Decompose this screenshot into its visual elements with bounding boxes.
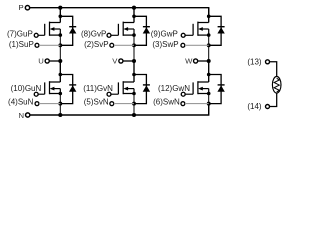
diode D6 [217,85,224,92]
mosfet Q6 gate bar [192,82,194,94]
terminal SvN pin 5 [110,102,114,106]
terminal W [194,59,198,63]
wire gate lead Q3 [185,34,193,36]
diode D3 [217,27,224,34]
mosfet Q5 body arrow [123,87,134,91]
node source junction Q6 [207,92,211,96]
node output U junction [58,59,62,63]
svg-text:(14): (14) [247,102,262,111]
wire thermistor top [270,62,277,77]
node P-U junction [58,6,62,10]
terminal SuP pin 1 [35,43,39,47]
wire gate lead Q5 [111,93,118,95]
node output V junction [132,59,136,63]
wire drain leg Q4 [59,61,61,82]
wire source lead Q6 [198,93,209,95]
wire gate lead Q1 [38,34,44,36]
svg-text:(10)GuN: (10)GuN [11,84,42,93]
mosfet Q4 gate bar [44,82,46,94]
node sense junction Q1 [58,43,62,47]
node drain junction Q3 [207,14,211,18]
svg-text:(1)SuP: (1)SuP [9,40,34,49]
wire diode branch D1 [60,16,72,45]
terminal GuN pin 10 [34,92,38,96]
wire drain leg Q1 [59,8,61,23]
wire diode branch D5 [134,75,146,104]
wire source lead Q1 [50,34,61,36]
node drain junction Q4 [59,73,63,77]
wire drain leg Q3 [208,8,210,23]
mosfet Q5 gate bar [117,82,119,94]
wire drain leg Q2 [133,8,135,23]
wire source sense SvN [114,103,134,105]
wire diode branch D6 [209,75,221,104]
node sense junction Q2 [132,43,136,47]
node N-U junction [58,113,62,117]
node drain junction Q5 [132,73,136,77]
mosfet Q2 channel [122,22,124,36]
diode D4 [69,85,76,92]
svg-text:(12)GwN: (12)GwN [158,84,190,93]
mosfet Q6 body arrow [198,87,209,91]
wire N rail [30,104,209,115]
mosfet Q1 body arrow [50,27,61,31]
wire source lead Q5 [123,93,134,95]
wire drain lead Q5 [123,81,134,83]
node source junction Q5 [132,92,136,96]
svg-text:(6)SwN: (6)SwN [153,97,180,106]
wire source sense SuP [39,44,60,46]
mosfet Q5 channel [122,81,124,94]
wire diode branch D4 [60,75,72,104]
terminal pin 13 [266,60,270,64]
wire gate lead Q6 [185,93,193,95]
terminal U [45,59,49,63]
svg-text:(9)GwP: (9)GwP [151,30,178,39]
svg-text:U: U [38,56,44,65]
mosfet Q1 channel [49,22,51,36]
wire source sense SwN [185,103,209,105]
node source junction Q3 [207,33,211,37]
svg-text:(13): (13) [247,57,262,66]
node drain junction Q1 [59,14,63,18]
wire source lead Q4 [50,93,61,95]
mosfet Q2 body arrow [123,27,134,31]
wire diode branch D2 [134,16,146,45]
thermistor TH1 [272,77,281,94]
wire drain leg Q6 [208,61,210,82]
terminal GuP pin 7 [34,33,38,37]
wire gate lead Q4 [38,93,44,95]
node drain junction Q6 [207,73,211,77]
terminal SwN pin 6 [181,102,185,106]
node sense junction Q3 [207,43,211,47]
wire source sense SuN [39,103,60,105]
terminal SvP pin 2 [110,43,114,47]
P terminal [25,6,29,10]
mosfet Q2 gate bar [117,24,119,36]
node sense junction Q4 [58,102,62,106]
terminal pin 14 [266,105,270,109]
N terminal [26,113,30,117]
terminal GwP pin 9 [181,33,185,37]
svg-text:N: N [18,111,24,120]
wire output W [198,60,209,62]
wire gate lead Q2 [111,34,118,36]
terminal GvP pin 8 [107,33,111,37]
wire body/source leg Q3 [208,29,210,35]
wire drain leg Q5 [133,61,135,82]
svg-text:(8)GvP: (8)GvP [81,30,106,39]
node source junction Q2 [132,33,136,37]
wire body/source leg Q2 [133,29,135,35]
terminal GvN pin 11 [107,92,111,96]
wire source lead Q2 [123,34,134,36]
svg-text:V: V [112,56,118,65]
svg-text:(2)SvP: (2)SvP [84,40,108,49]
diode D1 [69,27,76,34]
svg-text:P: P [19,3,24,12]
node output W junction [207,59,211,63]
node sense junction Q6 [207,102,211,106]
wire diode branch D3 [209,16,221,45]
mosfet Q1 gate bar [44,24,46,36]
wire source lead Q3 [198,34,209,36]
wire drain lead Q6 [198,81,209,83]
wire output V [123,60,134,62]
wire P rail [30,8,209,17]
terminal SuN pin 4 [35,102,39,106]
wire body/source leg Q1 [59,29,61,35]
wire body/source leg Q6 [208,89,210,94]
wire drain lead Q3 [198,22,209,24]
wire thermistor bottom [270,93,277,107]
svg-text:(5)SvN: (5)SvN [84,97,109,106]
node N-V junction [132,113,136,117]
mosfet Q4 channel [49,81,51,94]
mosfet Q3 channel [197,22,199,36]
mosfet Q6 channel [197,81,199,94]
wire source sense SvP [114,44,134,46]
wire body/source leg Q4 [59,89,61,94]
mosfet Q3 body arrow [198,27,209,31]
node source junction Q1 [59,33,63,37]
wire body/source leg Q5 [133,89,135,94]
svg-text:(4)SuN: (4)SuN [8,97,34,106]
wire drain lead Q2 [123,22,134,24]
terminal GwN pin 12 [181,92,185,96]
wire drain lead Q4 [50,81,61,83]
svg-text:(11)GvN: (11)GvN [83,84,113,93]
terminal SwP pin 3 [181,43,185,47]
svg-text:(7)GuP: (7)GuP [7,30,33,39]
node drain junction Q2 [132,14,136,18]
diode D5 [143,85,150,92]
terminal V [119,59,123,63]
wire drain lead Q1 [50,22,61,24]
mosfet Q4 body arrow [50,87,61,91]
node sense junction Q5 [132,102,136,106]
svg-text:W: W [185,56,193,65]
node P-V junction [132,6,136,10]
mosfet Q3 gate bar [192,24,194,36]
wire source sense SwP [185,44,209,46]
diode D2 [143,27,150,34]
node source junction Q4 [59,92,63,96]
wire output U [49,60,60,62]
svg-text:(3)SwP: (3)SwP [152,40,178,49]
